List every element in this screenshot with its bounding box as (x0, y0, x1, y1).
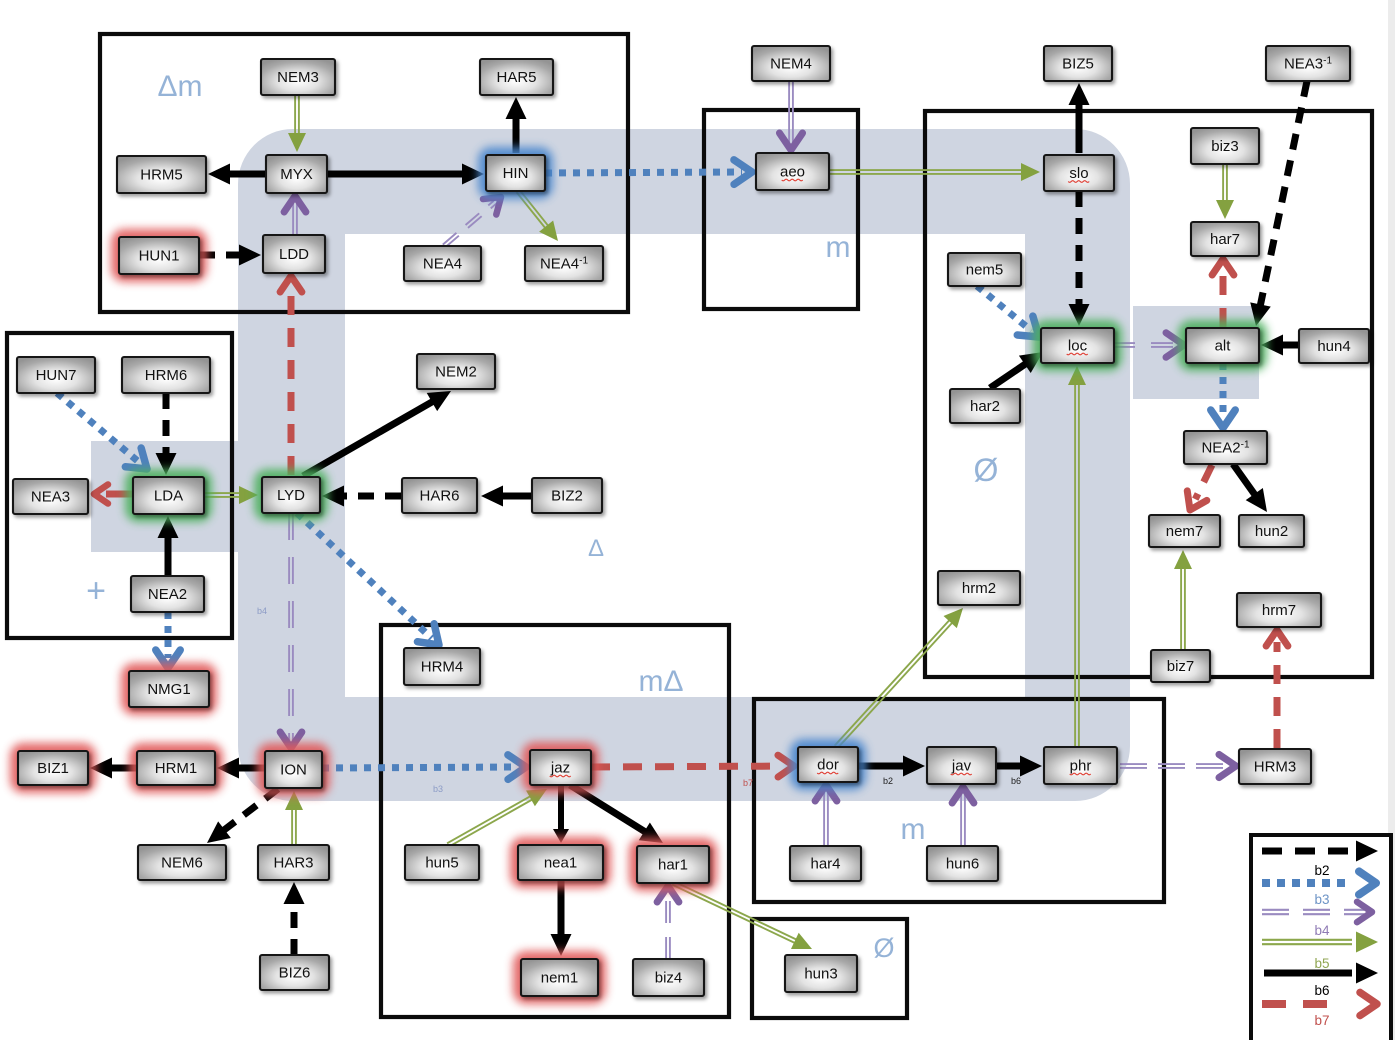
svg-text:nem5: nem5 (966, 262, 1004, 279)
group box Dm (100, 34, 628, 312)
svg-text:HRM1: HRM1 (155, 760, 198, 777)
wire slo->BIZ5 (b6 solid black) (1069, 83, 1090, 153)
svg-text:MYX: MYX (280, 166, 313, 183)
svg-text:HAR3: HAR3 (273, 855, 313, 872)
svg-text:hun6: hun6 (946, 856, 979, 873)
svg-text:NMG1: NMG1 (147, 681, 190, 698)
svg-text:HRM6: HRM6 (145, 367, 188, 384)
svg-text:b6: b6 (1011, 776, 1021, 786)
group box O-slash small (752, 919, 907, 1018)
wire LYD->HRM4 (b3 blue dotted) (297, 513, 447, 654)
svg-text:NEA3: NEA3 (31, 489, 70, 506)
svg-text:biz7: biz7 (1167, 658, 1195, 675)
wire jaz->dor (b7 dashed red) (591, 755, 794, 777)
svg-text:alt: alt (1215, 338, 1232, 355)
svg-text:m: m (901, 813, 926, 846)
svg-text:NEA2: NEA2 (148, 586, 187, 603)
node LDD (263, 235, 325, 273)
svg-text:NEM2: NEM2 (435, 364, 477, 381)
node phr (1044, 747, 1117, 784)
svg-text:HAR6: HAR6 (419, 488, 459, 505)
svg-text:b7: b7 (743, 778, 753, 788)
wire NEM3->MYX (b5 green double) (288, 95, 306, 152)
track ring (big rounded loop band) (238, 129, 1130, 801)
wire HIN->aeo (b3 blue dotted) (545, 160, 752, 185)
node BIZ5 (1044, 46, 1112, 81)
node har2 (950, 389, 1020, 423)
node NEM4 (752, 46, 830, 81)
svg-text:har2: har2 (970, 398, 1000, 415)
node aeo (756, 153, 829, 190)
node hun4 (1299, 329, 1369, 363)
wire phr->loc (b5 green double) (1068, 366, 1086, 747)
legend box (1251, 835, 1391, 1045)
node NEM2 (417, 354, 495, 389)
wire biz4->har1 (b4 purple double) (657, 886, 679, 959)
wire biz3->har7 (b5 green double) (1216, 164, 1234, 219)
svg-text:hrm7: hrm7 (1262, 602, 1296, 619)
wire LDA->LYD (b5 green double) (204, 486, 258, 504)
wire ION->jaz (b3 blue dotted) (322, 755, 526, 780)
node biz3 (1191, 128, 1259, 164)
wire HUN7->LDA (b3 blue dotted) (57, 393, 155, 478)
svg-text:BIZ2: BIZ2 (551, 488, 583, 505)
wire hun6->jav (b4 purple double) (952, 787, 974, 846)
wire HRM3->hrm7 (b7 dashed red) (1266, 630, 1288, 748)
node HUN7 (17, 357, 95, 393)
wire LYD->NEM2 (b6 solid black) (303, 382, 456, 476)
node nem7 (1149, 515, 1220, 547)
svg-text:b5: b5 (1314, 956, 1329, 971)
svg-text:hun2: hun2 (1255, 523, 1288, 540)
wire alt->har7 (b7 dashed red) (1212, 259, 1234, 327)
svg-text:HUN7: HUN7 (36, 367, 77, 384)
svg-text:har4: har4 (810, 856, 840, 873)
node NEA4^-1 (525, 246, 603, 281)
wire LYD->ION (b4 purple double) (280, 513, 302, 748)
svg-text:BIZ6: BIZ6 (279, 965, 311, 982)
svg-text:b2: b2 (883, 776, 893, 786)
legend row b5 green double (1262, 932, 1378, 953)
svg-text:b4: b4 (257, 606, 267, 616)
node BIZ1 (10, 743, 96, 793)
node biz4 (633, 959, 704, 996)
svg-text:b3: b3 (433, 784, 443, 794)
node jav (927, 747, 996, 784)
svg-text:BIZ1: BIZ1 (37, 760, 69, 777)
node HRM6 (122, 357, 210, 393)
wire BIZ2->HAR6 (b6 solid black) (481, 486, 532, 507)
node ION (257, 743, 330, 796)
node NMG1 (121, 663, 217, 715)
wire NEA4->HIN (b4 purple double) (443, 189, 508, 247)
node HAR6 (402, 478, 477, 513)
node NEM6 (138, 845, 226, 880)
svg-text:HUN1: HUN1 (139, 248, 180, 265)
wire MYX->HIN (b6 solid black) (327, 164, 484, 185)
wire NEA2-1->nem7 (b7 dashed red) (1180, 465, 1212, 515)
node NEA4 (404, 246, 481, 281)
svg-text:HRM5: HRM5 (140, 167, 183, 184)
node hun2 (1239, 515, 1304, 547)
node har4 (790, 846, 861, 881)
wire LDD->MYX (b4 purple double) (284, 196, 306, 235)
node hun5 (405, 845, 479, 880)
wire ION->HRM1 (b6 solid black) (217, 758, 265, 779)
node hrm7 (1237, 593, 1321, 627)
svg-text:har1: har1 (658, 857, 688, 874)
node alt (1178, 320, 1267, 371)
node nem5 (948, 253, 1021, 286)
svg-text:Ø: Ø (873, 933, 894, 963)
svg-text:b6: b6 (1314, 983, 1329, 998)
wire har4->dor (b4 purple double) (815, 785, 837, 846)
node har7 (1191, 222, 1259, 256)
node slo (1044, 155, 1114, 191)
legend row b4 purple double (1262, 902, 1372, 922)
node MYX (266, 155, 327, 193)
wire HIN->HAR5 (b6 solid black) (506, 97, 527, 153)
node hun6 (927, 846, 998, 881)
svg-text:nea1: nea1 (544, 855, 577, 872)
wire HRM1->BIZ1 (b6 solid black) (90, 758, 137, 779)
svg-text:mΔ: mΔ (638, 665, 683, 698)
wire LDA->NEA3 (b7 red) (94, 484, 133, 503)
wire nem5->loc (b3 blue dotted) (977, 286, 1047, 346)
svg-text:hun5: hun5 (425, 855, 458, 872)
node hun3 (785, 955, 857, 992)
svg-text:HAR5: HAR5 (496, 69, 536, 86)
wire BIZ6->HAR3 (b2 dashed black) (284, 882, 305, 955)
wire jaz->har1 (b6 solid black) (570, 785, 669, 852)
svg-text:phr: phr (1070, 758, 1092, 775)
svg-text:jaz: jaz (550, 760, 570, 777)
wire ION->NEM6 (b2 dashed black) (201, 789, 278, 851)
svg-text:har7: har7 (1210, 231, 1240, 248)
svg-text:m: m (826, 231, 851, 264)
svg-text:NEM4: NEM4 (770, 56, 812, 73)
svg-text:Δ: Δ (588, 535, 604, 562)
legend row b7 red dashed (1262, 992, 1377, 1015)
node dor (790, 739, 866, 790)
svg-text:hrm2: hrm2 (962, 580, 996, 597)
node HRM1 (129, 743, 223, 793)
wire HAR3->ION (b5 green double) (285, 791, 303, 845)
node hrm2 (938, 571, 1020, 605)
svg-text:NEM6: NEM6 (161, 855, 203, 872)
svg-text:Ø: Ø (974, 452, 999, 488)
wire alt->NEA2-1 (b3 blue dotted) (1211, 363, 1235, 428)
svg-text:LDA: LDA (154, 488, 183, 505)
node NEA3 (13, 479, 88, 514)
wire jaz->nea1 (b6 solid black) (553, 785, 569, 843)
wire HAR6->LYD (b2 dashed black) (322, 486, 401, 507)
wire slo->loc (b2 dashed black) (1069, 191, 1090, 326)
node loc (1033, 320, 1122, 371)
svg-text:NEM3: NEM3 (277, 69, 319, 86)
svg-text:aeo: aeo (780, 164, 805, 181)
wire har2->loc (b6 solid black) (990, 343, 1049, 388)
svg-text:biz4: biz4 (655, 970, 683, 987)
svg-text:+: + (86, 572, 106, 610)
svg-text:slo: slo (1069, 165, 1088, 182)
legend row b2 black dashed (1262, 841, 1378, 862)
track band behind LDA (91, 441, 238, 552)
wire biz7->nem7 (b5 green double) (1174, 550, 1192, 650)
svg-text:hun4: hun4 (1317, 338, 1350, 355)
svg-text:hun3: hun3 (804, 966, 837, 983)
svg-text:LYD: LYD (277, 487, 305, 504)
node HRM5 (117, 156, 206, 193)
node HUN1 (111, 229, 207, 282)
group box m (dor) (754, 699, 1164, 902)
node HIN (478, 147, 553, 199)
wire HRM6->LDA (b2 dashed black) (156, 393, 177, 475)
node NEA2^-1 (1184, 431, 1267, 464)
wire NEA2-1->hun2 (b6 solid black) (1233, 464, 1276, 518)
group box m (aeo) (704, 110, 858, 309)
svg-text:HRM4: HRM4 (421, 659, 464, 676)
node NEM3 (261, 59, 335, 95)
wire HIN->NEA4-1 (b5 green double) (517, 190, 566, 247)
node LYD (254, 469, 328, 521)
node nea1 (510, 837, 611, 888)
wire HUN1->LDD (b2 dashed black) (199, 245, 261, 266)
wire hun4->alt (b6 solid black) (1261, 335, 1299, 356)
node jaz (522, 742, 599, 793)
legend row b3 blue dotted (1262, 871, 1376, 894)
svg-text:ION: ION (280, 762, 307, 779)
svg-text:b4: b4 (1314, 923, 1330, 938)
node biz7 (1151, 650, 1210, 682)
node NEA3^-1 (1266, 46, 1350, 81)
svg-text:nem1: nem1 (541, 970, 579, 987)
node HRM4 (404, 648, 480, 685)
node BIZ2 (532, 478, 602, 513)
wire har1->hun3 (b5 green double) (672, 881, 816, 957)
svg-text:dor: dor (817, 757, 839, 774)
svg-text:Δm: Δm (157, 70, 202, 103)
wire LYD->LDD (b7 dashed red) (280, 276, 302, 475)
node NEA2 (131, 576, 204, 612)
svg-text:b7: b7 (1314, 1013, 1329, 1028)
wire aeo->slo (b5 green double) (829, 163, 1040, 181)
legend row b6 black solid (1264, 963, 1378, 984)
wire dor->hrm2 (b5 green double) (835, 602, 970, 748)
node nem1 (513, 951, 606, 1004)
svg-text:jav: jav (951, 758, 972, 775)
group box mD (381, 625, 729, 1017)
svg-text:b3: b3 (1314, 892, 1329, 907)
svg-text:loc: loc (1068, 338, 1088, 355)
svg-text:b2: b2 (1314, 863, 1329, 878)
svg-text:HRM3: HRM3 (1254, 759, 1297, 776)
wire NEM4->aeo (b4 purple double) (779, 81, 802, 150)
svg-text:BIZ5: BIZ5 (1062, 56, 1094, 73)
wire NEA3-1->alt (b2 dashed black) (1246, 81, 1307, 328)
node HAR3 (258, 845, 329, 880)
wire NEA2->LDA (b6 solid black) (158, 516, 179, 575)
wire nea1->nem1 (b6 solid black) (551, 880, 572, 956)
node LDA (125, 469, 212, 522)
wire phr->HRM3 (b4 purple double) (1120, 754, 1236, 777)
node BIZ6 (260, 955, 329, 990)
node HAR5 (480, 59, 553, 95)
wire NEA2->NMG1 (b3 blue dotted) (156, 612, 180, 668)
svg-text:HIN: HIN (503, 165, 529, 182)
svg-text:LDD: LDD (279, 246, 309, 263)
node har1 (629, 838, 717, 891)
wire dor->jav (b6 solid black) (858, 756, 925, 777)
track band behind alt (1133, 306, 1259, 399)
wire MYX->HRM5 (b6 solid black) (208, 164, 266, 185)
svg-text:nem7: nem7 (1166, 523, 1204, 540)
svg-text:biz3: biz3 (1211, 138, 1239, 155)
node HRM3 (1239, 749, 1311, 784)
wire jav->phr (b6 solid black) (996, 756, 1042, 777)
group box plus (7, 333, 232, 638)
wire hun5->jaz (b5 green double) (447, 781, 551, 847)
wire loc->alt (b4 purple double) (1113, 333, 1184, 357)
group box O-slash big (925, 111, 1372, 677)
svg-text:NEA4: NEA4 (423, 256, 462, 273)
page right edge strip (1388, 0, 1395, 1040)
